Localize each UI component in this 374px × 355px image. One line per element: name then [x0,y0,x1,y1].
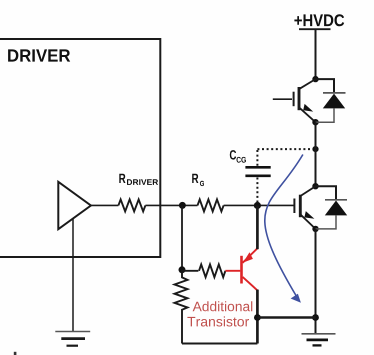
node dotted-collector junction dot [312,146,318,152]
wire buffer output [91,204,119,206]
transistor Q3 additional PNP red [225,248,257,290]
wire R_G to IGBT gate [224,204,294,206]
label R_G [192,174,204,186]
wire bottom return [182,343,257,345]
node B gate junction dot [254,202,261,209]
ground driver [55,332,90,346]
wire rail Q2 emitter to ground [315,229,317,334]
capacitor C_CG plates [245,166,270,169]
label C_CG [230,150,246,163]
node emitter ground junction dot [312,314,319,321]
node A junction dot [179,202,186,209]
resistor pulldown vertical [175,270,188,344]
dotted net C_CG to collector [256,149,258,166]
power rail bar [299,28,331,30]
artifact mark bottom left [14,352,17,355]
label R_DRIVER [119,174,158,185]
wire node A down to node C [181,205,183,269]
wire buffer ground lead [72,219,74,332]
label Additional Transistor [187,301,252,326]
wire +HVDC to Q1 collector [315,29,317,79]
label +HVDC [294,14,344,26]
resistor base Q3 [199,264,225,277]
dotted net C_CG to gate node [256,178,258,203]
resistor R_DRIVER [118,199,145,211]
node Q3 collector ground junction dot [254,314,261,321]
driver box [0,39,160,257]
node Q2 emitter dot [312,226,318,232]
wire Q3 collector down [256,290,259,344]
wire clamp to power ground [257,316,315,318]
label DRIVER [8,49,70,61]
wire Q3 emitter to gate node B [256,206,259,250]
wire rail Q1 emitter to Q2 collector [315,122,317,186]
blue arrow Miller current path [265,155,303,296]
diode D1 [316,79,335,92]
wire R_DRIVER to node A [145,204,197,206]
wire node C to base resistor [182,270,198,272]
node C junction dot [179,266,186,273]
op-amp U1 driver buffer triangle [58,182,91,229]
transistor Q1 top IGBT [273,79,316,122]
node Q1 emitter dot [312,119,318,125]
node Q2 collector dot [312,183,318,189]
ground power [302,334,336,346]
resistor R_G [198,199,224,211]
transistor Q2 lower IGBT [294,186,315,229]
diode D2 [316,186,337,199]
node Q1 collector dot [312,76,318,82]
